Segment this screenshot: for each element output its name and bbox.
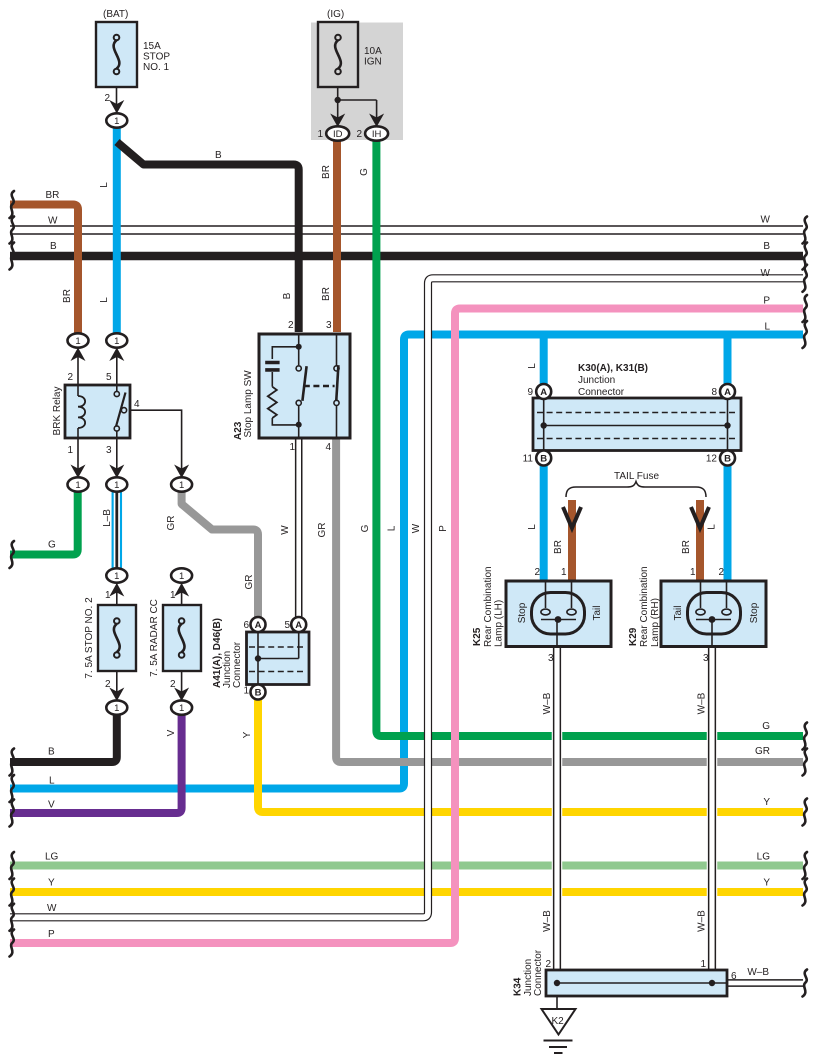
svg-text:LG: LG [757, 852, 771, 863]
svg-text:2: 2 [67, 372, 73, 383]
svg-text:2: 2 [104, 93, 110, 104]
svg-text:1: 1 [561, 567, 567, 578]
svg-text:BR: BR [681, 540, 692, 554]
svg-text:1: 1 [243, 686, 249, 697]
svg-text:10A: 10A [364, 46, 382, 57]
svg-text:L–B: L–B [102, 509, 113, 527]
svg-text:2: 2 [545, 959, 551, 970]
svg-text:W–B: W–B [542, 910, 553, 932]
svg-text:1: 1 [179, 480, 184, 491]
svg-text:2: 2 [105, 679, 111, 690]
svg-text:(IG): (IG) [327, 9, 344, 20]
svg-text:V: V [166, 729, 177, 736]
svg-text:4: 4 [134, 399, 140, 410]
svg-text:BR: BR [553, 540, 564, 554]
svg-text:BR: BR [62, 289, 73, 303]
svg-text:L: L [527, 524, 538, 530]
svg-text:15A: 15A [143, 41, 161, 52]
svg-text:2: 2 [356, 129, 362, 140]
svg-text:Rear Combination: Rear Combination [483, 566, 494, 647]
svg-text:Y: Y [48, 878, 55, 889]
svg-text:K25: K25 [472, 627, 483, 646]
svg-text:Stop: Stop [749, 602, 760, 623]
svg-text:2: 2 [534, 567, 540, 578]
svg-text:B: B [540, 454, 547, 465]
svg-text:STOP: STOP [143, 52, 170, 63]
svg-text:GR: GR [755, 746, 770, 757]
svg-text:K29: K29 [628, 627, 639, 646]
svg-text:GR: GR [166, 516, 177, 531]
svg-text:1: 1 [317, 129, 323, 140]
svg-text:L: L [99, 182, 110, 188]
svg-text:W: W [761, 268, 771, 279]
svg-text:1: 1 [105, 590, 111, 601]
svg-text:Tail: Tail [592, 605, 603, 620]
svg-text:1: 1 [179, 703, 184, 714]
svg-text:GR: GR [244, 575, 255, 590]
svg-text:G: G [762, 721, 770, 732]
svg-text:TAIL Fuse: TAIL Fuse [614, 471, 659, 482]
svg-text:Y: Y [763, 797, 770, 808]
svg-text:1: 1 [114, 571, 119, 582]
svg-text:L: L [49, 776, 55, 787]
svg-text:W: W [761, 215, 771, 226]
svg-text:1: 1 [114, 703, 119, 714]
svg-text:W–B: W–B [747, 967, 769, 978]
svg-text:A: A [540, 387, 547, 398]
svg-text:B: B [255, 688, 262, 699]
svg-text:IGN: IGN [364, 57, 382, 68]
svg-text:Lamp (RH): Lamp (RH) [650, 598, 661, 647]
svg-text:11: 11 [523, 454, 534, 465]
svg-text:2: 2 [288, 320, 294, 331]
svg-text:5: 5 [106, 372, 112, 383]
svg-text:P: P [48, 929, 55, 940]
svg-text:1: 1 [179, 571, 184, 582]
svg-text:Lamp (LH): Lamp (LH) [494, 600, 505, 647]
svg-text:Y: Y [242, 731, 253, 738]
svg-text:3: 3 [326, 320, 332, 331]
svg-text:(BAT): (BAT) [103, 9, 128, 20]
svg-text:W–B: W–B [542, 692, 553, 714]
svg-text:1: 1 [114, 336, 119, 347]
svg-text:3: 3 [703, 653, 709, 664]
svg-text:7. 5A RADAR CC: 7. 5A RADAR CC [149, 599, 160, 677]
svg-text:A: A [724, 387, 731, 398]
svg-text:6: 6 [243, 620, 249, 631]
svg-text:1: 1 [114, 480, 119, 491]
svg-text:1: 1 [690, 567, 696, 578]
svg-text:IH: IH [372, 129, 382, 140]
svg-text:1: 1 [289, 442, 295, 453]
svg-text:7. 5A STOP NO. 2: 7. 5A STOP NO. 2 [84, 597, 95, 679]
svg-text:3: 3 [106, 445, 112, 456]
svg-text:Tail: Tail [673, 605, 684, 620]
svg-text:BR: BR [321, 287, 332, 301]
svg-text:2: 2 [170, 679, 176, 690]
svg-text:G: G [48, 540, 56, 551]
svg-text:P: P [438, 525, 449, 532]
svg-text:Stop: Stop [517, 602, 528, 623]
svg-text:B: B [215, 150, 222, 161]
svg-text:B: B [763, 241, 770, 252]
svg-text:L: L [527, 363, 538, 369]
svg-text:1: 1 [700, 959, 706, 970]
svg-text:B: B [282, 292, 293, 299]
svg-text:A: A [255, 620, 262, 631]
svg-text:L: L [707, 524, 718, 530]
svg-text:G: G [359, 168, 370, 176]
svg-text:12: 12 [706, 454, 718, 465]
svg-text:3: 3 [548, 653, 554, 664]
svg-text:G: G [360, 524, 371, 532]
svg-text:LG: LG [45, 852, 59, 863]
svg-text:L: L [99, 297, 110, 303]
svg-text:W: W [48, 216, 58, 227]
svg-text:8: 8 [711, 387, 717, 398]
svg-text:K34: K34 [513, 977, 524, 996]
svg-text:A: A [295, 620, 302, 631]
svg-text:BRK Relay: BRK Relay [52, 387, 63, 436]
svg-text:ID: ID [333, 129, 343, 140]
svg-text:6: 6 [731, 971, 737, 982]
svg-text:W–B: W–B [697, 910, 708, 932]
svg-text:Connector: Connector [578, 387, 625, 398]
svg-text:9: 9 [527, 387, 533, 398]
svg-text:5: 5 [284, 620, 290, 631]
svg-text:Rear Combination: Rear Combination [639, 566, 650, 647]
svg-text:1: 1 [170, 590, 176, 601]
svg-text:1: 1 [75, 336, 80, 347]
svg-text:V: V [48, 800, 55, 811]
svg-text:Junction: Junction [578, 375, 615, 386]
svg-text:NO. 1: NO. 1 [143, 62, 170, 73]
svg-text:L: L [764, 322, 770, 333]
svg-text:L: L [387, 525, 398, 531]
svg-text:BR: BR [46, 190, 60, 201]
svg-text:B: B [724, 454, 731, 465]
svg-text:W: W [47, 903, 57, 914]
svg-text:K30(A), K31(B): K30(A), K31(B) [578, 363, 648, 374]
svg-text:W: W [280, 525, 291, 535]
svg-text:P: P [763, 296, 770, 307]
svg-text:Stop Lamp SW: Stop Lamp SW [243, 370, 254, 438]
svg-text:2: 2 [718, 567, 724, 578]
svg-text:4: 4 [325, 442, 331, 453]
svg-text:1: 1 [67, 445, 73, 456]
svg-text:B: B [50, 241, 57, 252]
svg-text:BR: BR [321, 165, 332, 179]
svg-text:B: B [48, 747, 55, 758]
svg-text:Connector: Connector [232, 641, 243, 688]
svg-text:K2: K2 [552, 1016, 565, 1027]
svg-text:Connector: Connector [533, 949, 544, 996]
svg-text:W: W [411, 523, 422, 533]
svg-text:GR: GR [317, 523, 328, 538]
svg-text:W–B: W–B [697, 692, 708, 714]
svg-text:Y: Y [763, 878, 770, 889]
svg-text:1: 1 [75, 480, 80, 491]
svg-text:1: 1 [114, 116, 119, 127]
